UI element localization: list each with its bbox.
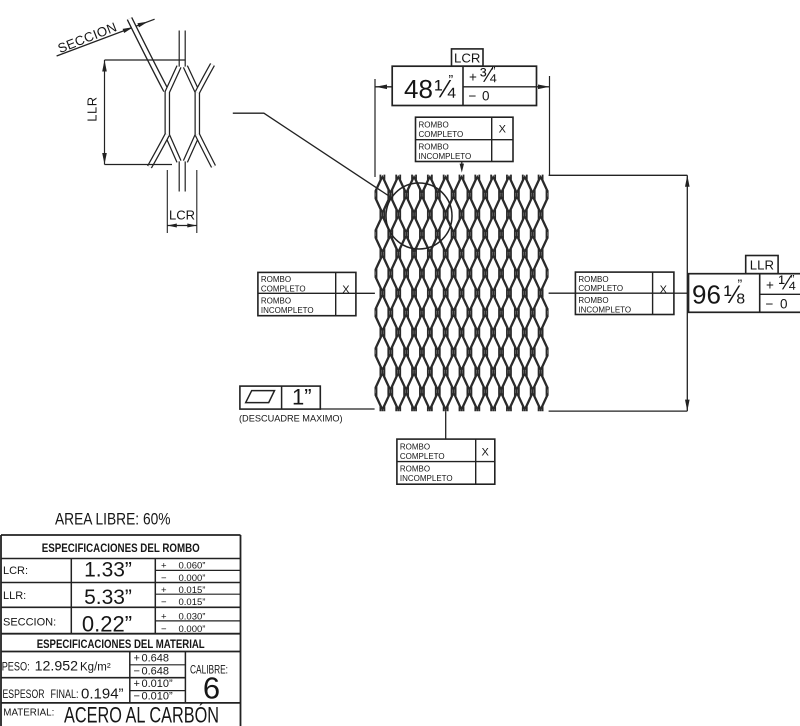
svg-text:0: 0 — [482, 89, 490, 104]
dimension LCR (detail) — [166, 170, 168, 233]
svg-text:LCR: LCR — [169, 208, 195, 223]
svg-text:COMPLETO: COMPLETO — [578, 284, 623, 293]
svg-text:0.000”: 0.000” — [179, 624, 206, 635]
detail bottom bond strand — [179, 162, 186, 192]
section label SECCION — [56, 19, 119, 56]
svg-text:ROMBO: ROMBO — [419, 120, 449, 129]
svg-text:X: X — [499, 123, 507, 135]
leader lines (right table) — [549, 292, 576, 294]
svg-text:−: − — [161, 597, 167, 608]
svg-text:ROMBO: ROMBO — [578, 296, 608, 305]
svg-text:0.030”: 0.030” — [179, 612, 206, 623]
svg-text:0.194”: 0.194” — [81, 686, 124, 703]
svg-text:MATERIAL:: MATERIAL: — [3, 708, 54, 719]
svg-text:6: 6 — [203, 671, 220, 706]
svg-text:0.22”: 0.22” — [82, 612, 132, 637]
svg-text:0.648: 0.648 — [142, 665, 170, 677]
svg-text:ESPECIFICACIONES DEL ROMBO: ESPECIFICACIONES DEL ROMBO — [42, 541, 200, 555]
svg-text:LCR:: LCR: — [3, 565, 28, 577]
svg-text:ROMBO: ROMBO — [261, 296, 291, 305]
detail neighbour strands — [150, 65, 214, 168]
svg-text:SECCION: SECCION — [56, 19, 119, 56]
svg-text:0.648: 0.648 — [142, 653, 170, 665]
svg-text:−: − — [134, 691, 140, 703]
section leader line with arrows — [57, 19, 155, 56]
svg-text:INCOMPLETO: INCOMPLETO — [400, 474, 453, 483]
svg-text:0.010”: 0.010” — [142, 678, 174, 690]
svg-text:ROMBO: ROMBO — [400, 442, 430, 451]
svg-text:+: + — [134, 653, 140, 665]
svg-text:COMPLETO: COMPLETO — [400, 452, 445, 461]
svg-text:+: + — [161, 585, 167, 596]
svg-text:LCR: LCR — [454, 51, 480, 66]
detail indicator circle — [386, 183, 452, 249]
svg-text:ESPESOR: ESPESOR — [3, 687, 45, 701]
svg-text:LLR: LLR — [750, 258, 774, 273]
svg-text:LLR: LLR — [85, 96, 100, 121]
leader to mesh top — [461, 162, 463, 166]
dimension 96 1/8 inch — [549, 174, 688, 176]
svg-text:ROMBO: ROMBO — [578, 275, 608, 284]
svg-text:Kg/m²: Kg/m² — [80, 661, 111, 673]
specification table frame — [0, 535, 2, 726]
svg-text:X: X — [342, 284, 350, 296]
svg-text:0.015”: 0.015” — [179, 585, 206, 596]
svg-text:96: 96 — [692, 280, 721, 310]
svg-text:−: − — [766, 296, 774, 311]
box label LLR — [746, 256, 778, 274]
svg-text:1.33”: 1.33” — [84, 559, 132, 582]
svg-text:ESPECIFICACIONES DEL MATERIAL: ESPECIFICACIONES DEL MATERIAL — [37, 637, 205, 651]
svg-text:X: X — [482, 446, 490, 458]
svg-text:5.33”: 5.33” — [84, 586, 132, 609]
svg-text:X: X — [660, 284, 668, 296]
svg-text:FINAL:: FINAL: — [51, 687, 79, 701]
squareness symbol box 1 inch — [240, 386, 320, 409]
svg-text:−: − — [161, 573, 167, 584]
dimension LLR (detail) — [105, 59, 186, 61]
svg-text:−: − — [134, 665, 140, 677]
svg-text:INCOMPLETO: INCOMPLETO — [261, 306, 314, 315]
svg-text:”: ” — [791, 272, 795, 286]
svg-text:”: ” — [449, 72, 454, 88]
svg-text:−: − — [469, 89, 477, 104]
svg-text:INCOMPLETO: INCOMPLETO — [419, 152, 472, 161]
svg-text:+: + — [161, 612, 167, 623]
leader line (squareness) — [320, 408, 374, 410]
svg-text:SECCION:: SECCION: — [3, 617, 56, 629]
table rombo completo (right) — [575, 272, 674, 314]
leader line (bottom table) — [445, 411, 447, 439]
svg-text:ACERO AL CARBÓN: ACERO AL CARBÓN — [64, 703, 219, 726]
leader line (left table) — [356, 292, 375, 294]
svg-text:+: + — [161, 561, 167, 572]
svg-text:12.952: 12.952 — [35, 658, 79, 674]
svg-text:COMPLETO: COMPLETO — [419, 130, 464, 139]
svg-text:−: − — [161, 624, 167, 635]
svg-text:COMPLETO: COMPLETO — [261, 285, 306, 294]
svg-text:”: ” — [492, 65, 496, 79]
svg-text:LLR:: LLR: — [3, 590, 26, 602]
detail strand cut by section — [130, 19, 167, 91]
svg-text:48: 48 — [404, 74, 433, 104]
svg-text:PESO:: PESO: — [2, 659, 30, 673]
svg-text:¼: ¼ — [435, 76, 457, 104]
svg-text:+: + — [766, 277, 774, 292]
svg-text:ROMBO: ROMBO — [400, 464, 430, 473]
dimension 48 1/4 inch with tolerance — [374, 79, 376, 177]
svg-text:”: ” — [738, 276, 743, 292]
table rombo completo (bottom) — [397, 439, 495, 484]
svg-text:AREA LIBRE: 60%: AREA LIBRE: 60% — [55, 511, 171, 529]
detail top bond strand — [179, 31, 186, 67]
detail rhombus cell — [167, 67, 197, 162]
svg-text:0.060”: 0.060” — [179, 561, 206, 572]
svg-text:1”: 1” — [292, 385, 312, 410]
leader detail to mesh circle — [233, 113, 392, 198]
svg-text:(DESCUADRE MAXIMO): (DESCUADRE MAXIMO) — [239, 414, 343, 424]
svg-text:ROMBO: ROMBO — [261, 275, 291, 284]
table rombo completo (top) — [416, 117, 514, 161]
table rombo completo (left) — [258, 272, 356, 315]
svg-text:0: 0 — [780, 296, 788, 311]
box label LCR — [452, 49, 484, 66]
svg-text:0.000”: 0.000” — [179, 573, 206, 584]
svg-text:0.015”: 0.015” — [179, 597, 206, 608]
svg-text:ROMBO: ROMBO — [419, 143, 449, 152]
svg-text:+: + — [134, 678, 140, 690]
svg-text:0.010”: 0.010” — [142, 691, 174, 703]
svg-text:INCOMPLETO: INCOMPLETO — [578, 305, 631, 314]
svg-text:+: + — [469, 70, 477, 85]
